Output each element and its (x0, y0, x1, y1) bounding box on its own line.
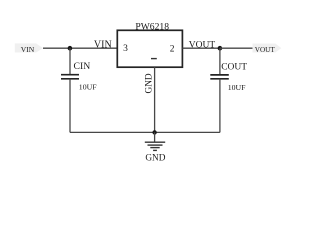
svg-text:CIN: CIN (74, 61, 91, 72)
wire ground rail (70, 131, 220, 133)
svg-text:2: 2 (170, 44, 175, 54)
port VOUT (253, 44, 282, 54)
wire VIN port to pin 3 (43, 47, 117, 49)
ground (145, 132, 166, 163)
wire junction down to CIN (69, 48, 71, 74)
IC U1 PW6218 body (117, 30, 182, 67)
svg-text:10UF: 10UF (228, 83, 246, 92)
svg-text:PW6218: PW6218 (135, 22, 169, 33)
wire pin 2 to VOUT junction (182, 47, 220, 49)
port VIN (15, 43, 43, 54)
wire IC GND pin down to rail (154, 67, 156, 132)
node junction VIN/CIN (68, 46, 73, 51)
wire CIN to ground rail (69, 79, 71, 133)
svg-text:GND: GND (145, 154, 165, 164)
svg-text:COUT: COUT (221, 63, 247, 73)
capacitor CIN (61, 61, 97, 91)
svg-text:3: 3 (123, 44, 128, 54)
svg-text:VOUT: VOUT (189, 40, 216, 50)
svg-text:GND: GND (144, 73, 154, 93)
pin 1 number (rotated dash) (151, 58, 157, 59)
svg-text:VIN: VIN (94, 39, 112, 50)
svg-text:10UF: 10UF (79, 82, 97, 91)
svg-text:VOUT: VOUT (255, 46, 276, 54)
node ground junction (152, 130, 156, 134)
wire COUT to ground rail (219, 79, 221, 133)
node junction VOUT/COUT (218, 46, 223, 51)
capacitor COUT (210, 63, 247, 92)
wire junction down to COUT (219, 48, 221, 75)
svg-text:VIN: VIN (21, 45, 35, 54)
wire junction to VOUT port (220, 47, 253, 49)
